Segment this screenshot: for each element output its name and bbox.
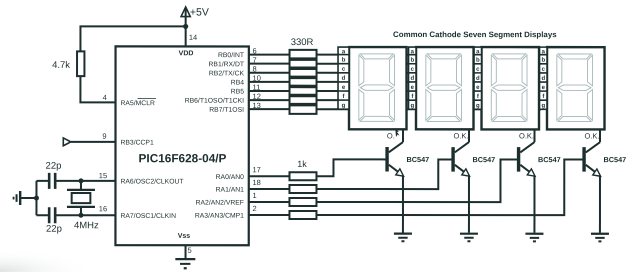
svg-text:Common Cathode Seven Segment D: Common Cathode Seven Segment Displays	[393, 30, 557, 39]
svg-text:g: g	[410, 103, 414, 109]
svg-text:RA0/AN0: RA0/AN0	[216, 174, 245, 181]
svg-text:g: g	[476, 103, 480, 109]
svg-text:RB0/INT: RB0/INT	[218, 52, 244, 59]
capacitor C2 22p	[46, 207, 62, 234]
svg-text:RA5/MCLR: RA5/MCLR	[121, 100, 155, 107]
wire base drive Q2	[316, 159, 452, 189]
svg-text:16: 16	[99, 204, 107, 213]
svg-text:1: 1	[252, 191, 256, 200]
svg-text:11: 11	[253, 83, 261, 92]
svg-text:14: 14	[189, 33, 197, 42]
resistor R5 1k	[289, 211, 316, 219]
resistor R3 1k	[289, 185, 316, 193]
svg-text:RA1/AN1: RA1/AN1	[216, 187, 245, 194]
wire crystal top stub	[80, 181, 82, 190]
wire RA row pin 18	[249, 188, 290, 190]
crystal X1 4MHz	[67, 190, 99, 231]
wire RB13 row	[249, 108, 290, 110]
wire base drive Q3	[316, 159, 517, 202]
wire segment bus a-g	[317, 55, 542, 110]
+5V supply symbol	[181, 7, 209, 19]
svg-text:6: 6	[253, 46, 257, 55]
wire emitter Q2 to ground	[468, 176, 470, 233]
svg-text:7: 7	[253, 55, 257, 64]
svg-text:22p: 22p	[46, 161, 62, 172]
svg-text:b: b	[342, 57, 346, 64]
svg-text:12: 12	[253, 92, 261, 101]
seven segment display DS2	[408, 47, 473, 140]
wire display DS3 cathode	[533, 129, 535, 142]
svg-text:15: 15	[99, 171, 107, 180]
svg-text:O.K.: O.K.	[453, 131, 468, 140]
svg-text:13: 13	[253, 101, 261, 110]
resistor R2 1k	[289, 159, 316, 180]
svg-text:RB2/TX/CK: RB2/TX/CK	[209, 70, 245, 77]
svg-text:d: d	[342, 75, 346, 82]
wire rail to ground	[20, 197, 37, 199]
ground	[394, 234, 412, 242]
node on pin 16 wire	[78, 213, 83, 218]
node on pin 15 wire	[78, 178, 83, 183]
svg-text:BC547: BC547	[603, 155, 626, 164]
wire RA row pin 1	[249, 201, 290, 203]
svg-text:b: b	[542, 57, 546, 64]
ground Vss	[175, 259, 195, 268]
seven segment display DS1	[338, 47, 407, 140]
svg-text:g: g	[541, 103, 545, 109]
svg-text:5: 5	[188, 246, 192, 255]
resistor R4 1k	[289, 198, 316, 206]
svg-text:RA2/AN2/VREF: RA2/AN2/VREF	[196, 200, 244, 207]
ground	[460, 234, 478, 242]
wire +5V branch to R1	[80, 26, 185, 51]
svg-text:b: b	[411, 57, 415, 64]
wire emitter Q1 to ground	[402, 176, 404, 233]
svg-text:RB1/RX/DT: RB1/RX/DT	[209, 61, 245, 68]
svg-text:2: 2	[252, 204, 256, 213]
wire RB7 row	[249, 63, 290, 65]
wire RA row pin 17	[249, 175, 290, 177]
wire OSC1 pin 16	[36, 214, 47, 216]
svg-text:d: d	[476, 75, 480, 82]
ground	[591, 234, 609, 242]
svg-text:RB3/CCP1: RB3/CCP1	[120, 139, 153, 146]
svg-text:BC547: BC547	[538, 155, 561, 164]
svg-text:8: 8	[253, 65, 257, 74]
wire to pin 9	[71, 141, 116, 143]
svg-text:O.K.: O.K.	[584, 131, 599, 140]
svg-text:VDD: VDD	[179, 50, 194, 57]
svg-text:RB4: RB4	[231, 79, 244, 86]
node rail tap	[34, 196, 39, 201]
resistor R1 4.7k	[52, 51, 84, 76]
svg-text:d: d	[410, 75, 414, 82]
svg-text:O.: O.	[387, 131, 395, 140]
svg-text:d: d	[541, 75, 545, 82]
wire base drive Q4	[316, 159, 583, 215]
svg-text:RA6/OSC2/CLKOUT: RA6/OSC2/CLKOUT	[120, 178, 183, 185]
seven segment display DS4	[539, 47, 604, 140]
svg-text:4.7k: 4.7k	[52, 60, 70, 71]
ground	[525, 234, 543, 242]
wire display DS2 cathode	[468, 129, 470, 142]
svg-text:BC547: BC547	[406, 155, 429, 164]
svg-text:RA3/AN3/CMP1: RA3/AN3/CMP1	[195, 213, 244, 220]
svg-text:PIC16F628-04/P: PIC16F628-04/P	[139, 151, 227, 165]
svg-text:O.K.: O.K.	[519, 131, 534, 140]
transistor Q1 BC547	[387, 142, 429, 176]
wire RA row pin 2	[249, 214, 290, 216]
svg-text:+5V: +5V	[190, 7, 209, 19]
svg-text:g: g	[342, 103, 346, 109]
resistor network RN 330R (7x)	[290, 37, 317, 114]
wire RB6 row	[249, 54, 290, 56]
transistor Q3 BC547	[519, 142, 561, 176]
wire emitter Q3 to ground	[533, 176, 535, 233]
svg-text:RA7/OSC1/CLKIN: RA7/OSC1/CLKIN	[120, 213, 176, 220]
ground (sideways) for crystal caps	[14, 191, 21, 205]
wire RB12 row	[249, 99, 290, 101]
IC U1 PIC16F628-04/P	[115, 46, 248, 245]
wire display DS1 cathode	[402, 129, 404, 142]
svg-text:9: 9	[102, 132, 106, 141]
svg-text:18: 18	[252, 178, 260, 187]
svg-text:4: 4	[103, 93, 107, 102]
seven segment display DS3	[474, 47, 539, 140]
svg-text:RB7/T1OSI: RB7/T1OSI	[209, 107, 244, 114]
wire +5V to VDD pin 14	[185, 8, 187, 46]
wire RB8 row	[249, 72, 290, 74]
transistor Q4 BC547	[584, 142, 626, 176]
capacitor C1 22p	[46, 161, 62, 189]
wire emitter Q4 to ground	[599, 176, 601, 233]
svg-text:17: 17	[252, 165, 260, 174]
svg-text:4MHz: 4MHz	[74, 220, 99, 231]
transistor Q2 BC547	[453, 142, 495, 176]
wire RB10 row	[249, 81, 290, 83]
node: +5V junction	[183, 24, 188, 29]
svg-text:22p: 22p	[46, 224, 62, 235]
svg-text:RB5: RB5	[231, 89, 244, 96]
svg-text:Vss: Vss	[178, 233, 191, 240]
svg-text:BC547: BC547	[472, 155, 495, 164]
svg-text:10: 10	[253, 74, 261, 83]
svg-text:b: b	[476, 57, 480, 64]
wire OSC2 pin 15	[36, 180, 48, 182]
svg-text:330R: 330R	[291, 37, 314, 48]
svg-text:1k: 1k	[297, 159, 307, 169]
input marker on RB3/CCP1	[63, 138, 71, 146]
wire display DS4 cathode	[599, 129, 601, 142]
svg-text:RB6/T1OSO/T1CKI: RB6/T1OSO/T1CKI	[185, 98, 244, 105]
wire RB11 row	[249, 90, 290, 92]
wire R1 to RA5/MCLR pin 4	[80, 76, 115, 102]
wire crystal bottom stub	[80, 207, 82, 215]
cursor artifact	[395, 130, 399, 137]
wire Vss pin 5	[185, 245, 187, 258]
wire base drive Q1	[316, 159, 386, 176]
wire capacitor rail	[35, 181, 37, 215]
